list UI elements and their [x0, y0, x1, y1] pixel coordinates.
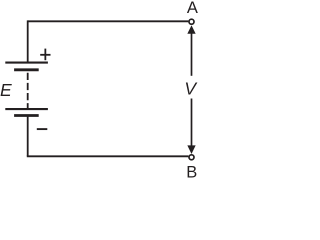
- battery E positive long plate (cell 2): [5, 108, 48, 110]
- wire left upper (top-left corner down to battery positive plate): [27, 20, 29, 62]
- wire bottom (bottom-left corner to B terminal): [27, 155, 189, 157]
- voltage arrow V lower shaft: [191, 99, 193, 147]
- voltage arrow V lower arrowhead (pointing down to B): [187, 145, 195, 154]
- plus label at battery positive terminal: [40, 49, 50, 61]
- wire top (A terminal to top-left corner): [28, 20, 189, 22]
- svg-text:V: V: [184, 79, 198, 99]
- node B terminal open circle: [189, 155, 194, 160]
- wire left lower (battery negative plate down to bottom-left corner): [27, 116, 29, 157]
- battery E negative short plate (cell 2): [14, 114, 39, 117]
- dashed wire between battery cells: [27, 71, 29, 108]
- svg-text:B: B: [186, 164, 197, 179]
- minus label at battery negative terminal: [37, 128, 48, 130]
- battery E negative short plate (cell 1): [14, 68, 39, 71]
- svg-text:A: A: [187, 0, 198, 17]
- voltage arrow V upper shaft: [191, 33, 193, 76]
- battery E positive long plate (cell 1): [5, 62, 48, 64]
- voltage arrow V upper arrowhead (pointing up to A): [187, 25, 195, 34]
- svg-text:E: E: [0, 80, 12, 100]
- node A terminal open circle: [189, 19, 194, 24]
